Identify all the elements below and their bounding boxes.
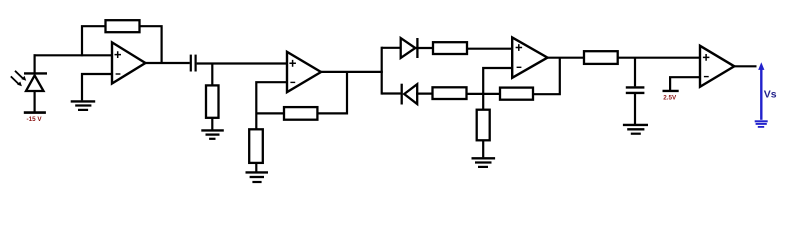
svg-text:2.5V: 2.5V	[663, 95, 677, 102]
svg-text:Vs: Vs	[764, 88, 777, 100]
svg-text:-15 V: -15 V	[27, 116, 43, 123]
